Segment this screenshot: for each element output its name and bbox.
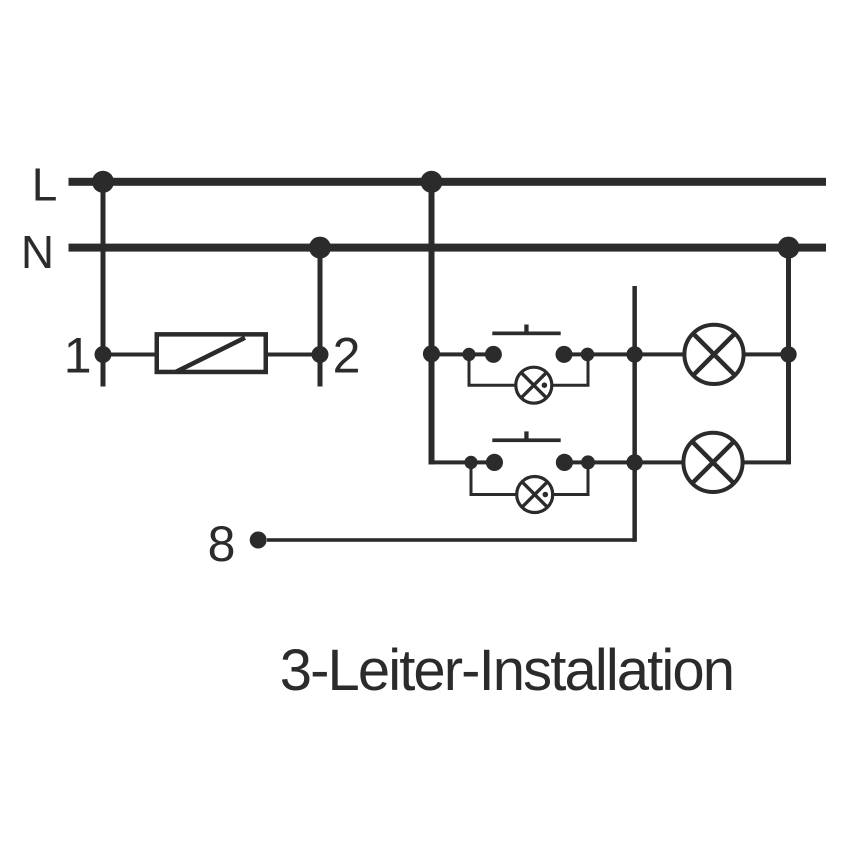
contact big right row2 xyxy=(556,454,573,471)
junction on N at right riser xyxy=(778,237,800,259)
wire terminal1 to relay xyxy=(103,353,155,357)
contact big left row1 xyxy=(485,346,502,363)
contact big left row2 xyxy=(486,454,503,471)
contact node small right row1 xyxy=(581,348,595,362)
svg-text:2: 2 xyxy=(333,328,361,384)
svg-text:3-Leiter-Installation: 3-Leiter-Installation xyxy=(280,638,733,703)
node terminal 8 xyxy=(250,532,267,549)
wire N bus xyxy=(69,244,827,252)
push-button S1 stem xyxy=(524,325,528,333)
node terminal 2 xyxy=(312,346,329,363)
junction on L at left riser xyxy=(92,171,114,193)
lamp E2 xyxy=(683,433,742,492)
wire vertical from N to lamps xyxy=(786,248,791,465)
wire row1 left segment xyxy=(432,352,494,356)
wire row2 right segment xyxy=(564,460,788,464)
push-button S2 stem xyxy=(524,431,528,439)
wire row2 left segment xyxy=(429,460,495,464)
contact big right row1 xyxy=(556,346,573,363)
wire terminal 8 xyxy=(267,538,635,542)
wire vertical from L to button rows xyxy=(429,182,435,465)
wire vertical from N to terminal 2 xyxy=(318,248,323,387)
push-button S2 actuator bar xyxy=(492,438,560,442)
pilot glow lamp 1 xyxy=(516,367,552,403)
wire vertical lamp feed (node 8 riser) xyxy=(632,286,637,542)
push-button S1 actuator bar xyxy=(492,332,560,336)
svg-text:8: 8 xyxy=(208,516,236,572)
wire pilot branch 1 xyxy=(469,354,588,385)
wire vertical from L to terminal 1 xyxy=(101,182,106,387)
junction row1 at lamp riser xyxy=(626,346,642,362)
contact node small left row2 xyxy=(464,456,477,469)
junction row2 at lamp riser xyxy=(626,454,642,470)
relay K1 (box with diagonal) xyxy=(157,334,266,372)
svg-text:1: 1 xyxy=(64,328,92,384)
junction row1 at N riser xyxy=(780,346,796,362)
wire pilot branch 2 xyxy=(471,462,588,494)
wire row1 right segment xyxy=(564,352,789,356)
wire L bus xyxy=(69,178,827,186)
junction on N at left riser xyxy=(309,237,331,259)
contact node small left row1 xyxy=(462,348,475,361)
wire relay to terminal2 xyxy=(268,353,320,357)
node terminal 1 xyxy=(95,346,112,363)
pilot glow lamp 2 xyxy=(517,477,553,513)
lamp E1 xyxy=(684,325,743,384)
svg-text:L: L xyxy=(32,159,58,211)
contact node small right row2 xyxy=(581,455,595,469)
svg-text:N: N xyxy=(21,226,54,278)
junction on L at right riser xyxy=(421,171,443,193)
junction row1 at left riser xyxy=(423,345,440,362)
